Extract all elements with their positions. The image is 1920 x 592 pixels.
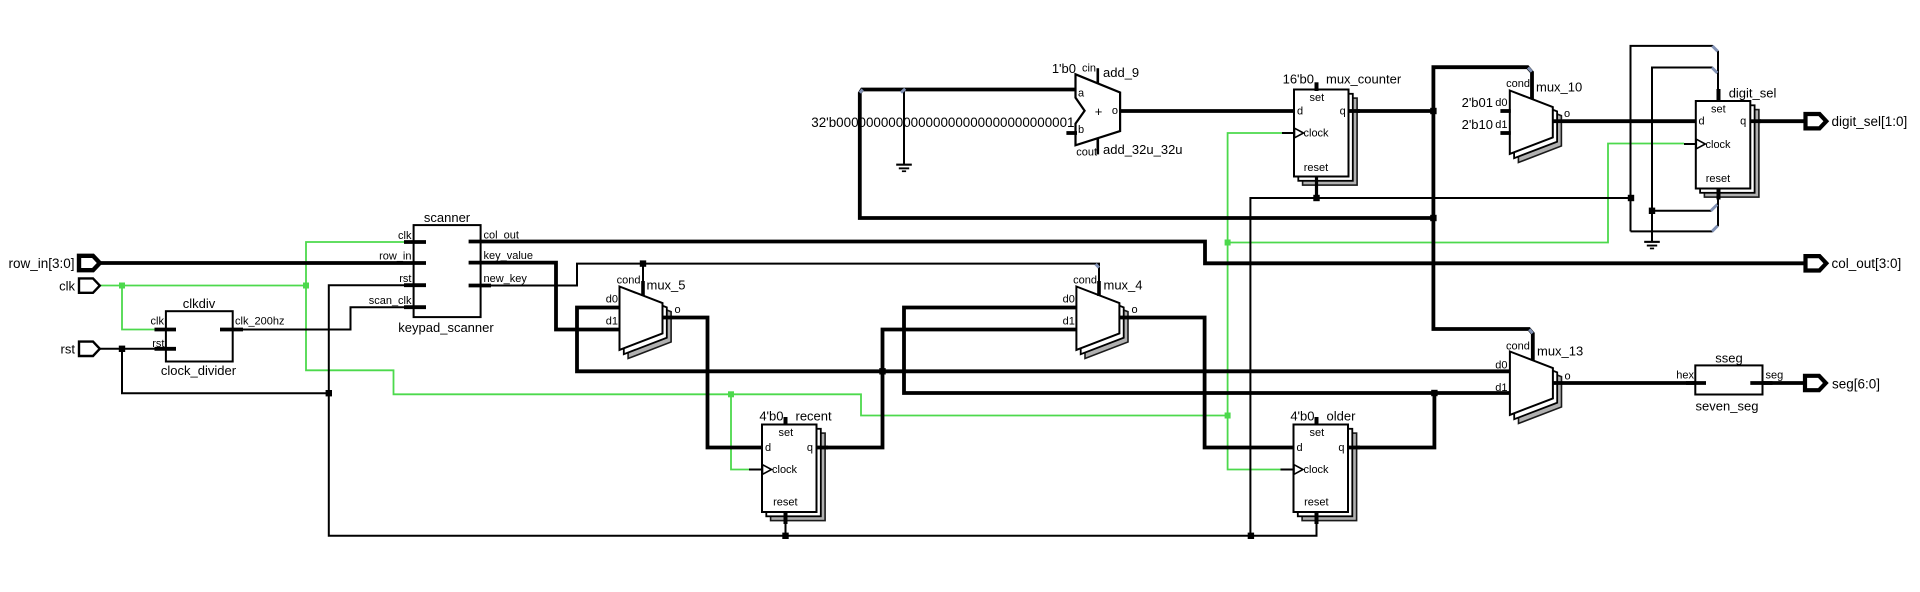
- svg-text:+: +: [1095, 104, 1103, 119]
- svg-text:recent: recent: [796, 408, 833, 423]
- svg-text:clkdiv: clkdiv: [183, 296, 216, 311]
- output port digit_sel[1:0]: [1806, 114, 1827, 128]
- bus: adder o to mux_counter d: [1120, 109, 1295, 113]
- svg-text:clock: clock: [1706, 139, 1732, 151]
- bus: mux_counter q: [1349, 109, 1434, 113]
- svg-text:d1: d1: [606, 315, 618, 327]
- recent set/reset stubs: [784, 417, 788, 426]
- svg-text:scanner: scanner: [424, 210, 471, 225]
- svg-text:cin: cin: [1082, 63, 1096, 75]
- recent q stub: [817, 446, 829, 450]
- svg-text:d1: d1: [1063, 316, 1075, 328]
- svg-text:clk: clk: [59, 278, 75, 293]
- output port seg[6:0]: [1805, 376, 1826, 390]
- svg-text:row_in[3:0]: row_in[3:0]: [8, 256, 74, 271]
- svg-text:digit_sel: digit_sel: [1729, 85, 1777, 100]
- svg-text:o: o: [1565, 370, 1571, 382]
- svg-text:cond: cond: [1073, 274, 1097, 286]
- svg-text:d: d: [765, 442, 771, 454]
- svg-text:rst: rst: [399, 273, 411, 285]
- older q stub: [1348, 446, 1360, 450]
- wire: clk net (green): [99, 285, 306, 287]
- mux mux_10: [1518, 99, 1561, 162]
- svg-text:set: set: [1309, 427, 1324, 439]
- bus: recent q to mux_4 d1 and long bus to mux_13 d0: [817, 330, 1077, 448]
- wire: clk_200hz net: [243, 307, 404, 329]
- input port row_in[3:0]: [79, 256, 100, 270]
- bus: mux_4 o to older d: [1130, 318, 1294, 448]
- svg-text:cond: cond: [617, 274, 641, 286]
- svg-text:o: o: [1112, 105, 1118, 117]
- svg-text:q: q: [807, 442, 813, 454]
- svg-text:2'b01: 2'b01: [1462, 95, 1493, 110]
- svg-text:q: q: [1340, 106, 1346, 118]
- bus: row_in: [100, 261, 404, 265]
- svg-text:keypad_scanner: keypad_scanner: [398, 320, 494, 335]
- svg-text:seven_seg: seven_seg: [1696, 399, 1759, 414]
- mux_13 o stub: [1553, 381, 1563, 385]
- bus: mux_13 o to sseg hex: [1563, 381, 1706, 385]
- digit_sel set/reset stubs: [1717, 89, 1721, 102]
- wire: digit_sel set/reset loops: [1631, 46, 1719, 232]
- svg-text:o: o: [675, 304, 681, 316]
- svg-text:set: set: [1309, 92, 1324, 104]
- svg-text:set: set: [778, 427, 793, 439]
- ground (digit_sel): [1644, 241, 1660, 243]
- bus: mux_5 o to recent d: [673, 318, 762, 448]
- svg-text:d0: d0: [1495, 97, 1507, 109]
- svg-text:sseg: sseg: [1715, 351, 1742, 366]
- junction dots: [119, 346, 125, 352]
- svg-text:clk: clk: [151, 316, 165, 328]
- svg-text:mux_4: mux_4: [1104, 277, 1143, 292]
- scanner pin stubs: [404, 240, 426, 244]
- bus: sseg seg to port: [1750, 381, 1804, 385]
- svg-text:mux_counter: mux_counter: [1326, 72, 1402, 87]
- svg-text:clock: clock: [1304, 127, 1330, 139]
- svg-text:o: o: [1564, 108, 1570, 120]
- svg-text:seg: seg: [1766, 370, 1784, 382]
- svg-text:cond: cond: [1506, 340, 1530, 352]
- svg-text:mux_13: mux_13: [1537, 343, 1583, 358]
- mux mux_5: [628, 295, 671, 358]
- svg-text:4'b0: 4'b0: [1290, 408, 1314, 423]
- svg-text:digit_sel[1:0]: digit_sel[1:0]: [1832, 114, 1908, 129]
- svg-text:cond: cond: [1506, 78, 1530, 90]
- svg-text:d0: d0: [606, 293, 618, 305]
- svg-text:b: b: [1078, 124, 1084, 136]
- svg-text:d: d: [1297, 442, 1303, 454]
- register older: [1302, 433, 1357, 520]
- svg-text:cout: cout: [1076, 147, 1097, 159]
- bus: older q / mux_4 d0 / mux_13 d1: [904, 308, 1510, 394]
- mux_5 o + cond stubs: [663, 316, 674, 320]
- svg-text:2'b10: 2'b10: [1462, 117, 1493, 132]
- clkdiv pin stubs: [155, 328, 177, 332]
- wire: ground tap near adder: [903, 91, 905, 165]
- svg-text:q: q: [1338, 442, 1344, 454]
- svg-text:clk_200hz: clk_200hz: [235, 316, 285, 328]
- svg-text:add_32u_32u: add_32u_32u: [1103, 142, 1183, 157]
- bus: key_value to mux_5 d1: [491, 263, 620, 330]
- svg-text:hex: hex: [1676, 370, 1694, 382]
- svg-text:d: d: [1699, 115, 1705, 127]
- sseg pin stubs: [1686, 381, 1706, 385]
- svg-text:d1: d1: [1495, 382, 1507, 394]
- svg-text:d0: d0: [1063, 293, 1075, 305]
- svg-text:reset: reset: [1304, 162, 1328, 174]
- svg-text:clk: clk: [398, 230, 412, 242]
- corner bevels: [1712, 46, 1717, 51]
- mux_10 o + const stubs: [1553, 119, 1563, 123]
- wire: new_key / cond net: [491, 264, 1099, 288]
- block sseg / seven_seg: [1695, 365, 1762, 394]
- svg-text:q: q: [1740, 115, 1746, 127]
- svg-text:col_out: col_out: [484, 229, 519, 241]
- mux_counter q stub: [1349, 109, 1361, 113]
- bus: mux_counter q net to mux_10 cond and mux_13 cond: [1433, 67, 1532, 360]
- svg-text:mux_5: mux_5: [647, 277, 686, 292]
- svg-text:o: o: [1132, 304, 1138, 316]
- bus: adder a feedback loop: [860, 90, 1434, 219]
- svg-text:rst: rst: [152, 338, 164, 350]
- svg-text:col_out[3:0]: col_out[3:0]: [1832, 256, 1902, 271]
- block clkdiv / clock_divider: [166, 311, 233, 361]
- mux_4 o + cond stubs: [1119, 316, 1130, 320]
- svg-text:reset: reset: [1706, 173, 1730, 185]
- mux mux_13: [1519, 360, 1562, 423]
- clock pin stubs + arrows: [1282, 132, 1294, 134]
- older set/reset stubs: [1315, 417, 1319, 426]
- register digit_sel: [1704, 110, 1759, 198]
- green junction dots: [119, 283, 125, 289]
- svg-text:row_in: row_in: [379, 250, 411, 262]
- register recent: [771, 433, 826, 520]
- svg-text:new_key: new_key: [484, 273, 528, 285]
- output port col_out[3:0]: [1806, 256, 1827, 270]
- svg-text:rst: rst: [61, 342, 76, 357]
- svg-text:a: a: [1078, 87, 1085, 99]
- svg-text:d0: d0: [1495, 359, 1507, 371]
- bus: digit_sel q to port: [1750, 119, 1804, 123]
- block scanner / keypad_scanner: [414, 225, 481, 317]
- svg-text:set: set: [1711, 104, 1726, 116]
- bus: mux_10 o to digit_sel d: [1563, 119, 1696, 123]
- svg-text:key_value: key_value: [484, 250, 534, 262]
- svg-text:reset: reset: [1304, 497, 1328, 509]
- svg-text:clock: clock: [772, 464, 798, 476]
- adder pin stubs: b, cin, cout: [1066, 131, 1077, 135]
- svg-text:clock_divider: clock_divider: [161, 363, 237, 378]
- svg-text:4'b0: 4'b0: [759, 408, 783, 423]
- digit_sel q stub: [1750, 119, 1761, 123]
- svg-text:reset: reset: [773, 497, 797, 509]
- svg-text:16'b0: 16'b0: [1283, 72, 1314, 87]
- svg-text:clock: clock: [1304, 464, 1330, 476]
- svg-text:1'b0: 1'b0: [1052, 61, 1076, 76]
- svg-text:add_9: add_9: [1103, 65, 1139, 80]
- mux_counter set/reset stubs: [1315, 82, 1319, 91]
- svg-text:d: d: [1297, 106, 1303, 118]
- ground (adder loop tap): [896, 164, 912, 166]
- svg-text:32'b00000000000000000000000000: 32'b00000000000000000000000000000001: [811, 115, 1074, 130]
- wire: rst net (thin black): [99, 348, 155, 350]
- input port clk: [79, 278, 100, 292]
- svg-text:mux_10: mux_10: [1536, 80, 1582, 95]
- svg-text:scan_clk: scan_clk: [369, 295, 412, 307]
- svg-text:older: older: [1327, 408, 1357, 423]
- adder add_9: [1076, 74, 1121, 145]
- svg-text:seg[6:0]: seg[6:0]: [1832, 377, 1880, 392]
- register mux_counter: [1303, 98, 1358, 185]
- svg-text:d1: d1: [1495, 119, 1507, 131]
- input port rst: [79, 342, 100, 356]
- bus: col_out: [491, 242, 1804, 264]
- mux mux_4: [1085, 295, 1128, 358]
